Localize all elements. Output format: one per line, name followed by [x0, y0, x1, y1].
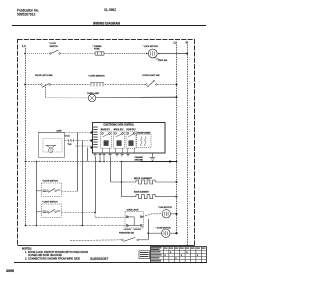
wire L1 bottom feed y225.5 [25, 225, 127, 227]
svg-text:LIMIT: LIMIT [57, 130, 63, 132]
node drops on mid rail [99, 161, 105, 163]
wire broil row right to L2 [155, 181, 176, 183]
node mid rail x170 [169, 160, 171, 162]
pin nub P4 [91, 140, 93, 142]
wire drop x104 to mid rail [103, 157, 105, 162]
wire feeder to door switch [36, 190, 41, 192]
switch S2 lock cam switch [154, 57, 168, 62]
node row2 at L2 [176, 84, 178, 86]
pin nub P3 [91, 132, 93, 134]
svg-text:2. CONNECTORS SHOWN FROM WIRE: 2. CONNECTORS SHOWN FROM WIRE SIDE [25, 257, 80, 260]
oven light assembly box [125, 209, 144, 228]
header rule [12, 25, 206, 27]
wire vertical drop B x82 [82, 141, 84, 226]
svg-text:5995267613: 5995267613 [17, 13, 36, 17]
relay K3 conv relay [126, 129, 136, 148]
wire lamp box to fan motor [142, 214, 162, 217]
svg-text:* OVEN SENSOR: * OVEN SENSOR [88, 76, 105, 78]
wire vertical x148 [148, 219, 150, 240]
U1 bottom pin stubs and labels [94, 153, 130, 156]
node fan motor at L2 [175, 213, 177, 215]
bus N [186, 41, 188, 246]
heating element bake [136, 195, 155, 199]
node mid rail at L1 [25, 161, 27, 163]
svg-text:DOOR LIGHT SW.: DOOR LIGHT SW. [143, 75, 161, 77]
node drop x95 on lamp feed [94, 212, 96, 214]
motor M3 conv motor [162, 229, 170, 237]
wire row2 sensor to door light switch [105, 84, 147, 86]
svg-text:N: N [186, 41, 188, 45]
motor M1 door lock motor [143, 46, 160, 58]
pin nub P5 [91, 147, 93, 149]
node lamp row at L2 [176, 96, 178, 98]
node x128 broil row crossing [121, 181, 123, 183]
wire fan motor to L2 [171, 213, 177, 215]
motor M2 fan motor [162, 210, 170, 218]
switch S1 lock switch [49, 43, 60, 54]
svg-text:TUS: TUS [68, 144, 73, 146]
relay terminal stubs inside U1 [102, 148, 134, 153]
svg-text:316063057: 316063057 [90, 257, 109, 261]
lamp DS1 oven lamp [87, 92, 100, 102]
svg-text:* CONV MOTOR: * CONV MOTOR [156, 228, 172, 230]
wire pressure switch row left [70, 239, 122, 242]
wire row1 fuse to motor [104, 53, 147, 55]
light switch box SW B [42, 202, 62, 218]
wire lamp row right to L2 [96, 96, 140, 98]
node row1 at L1 [24, 53, 26, 55]
svg-text:PRESSURE SW.: PRESSURE SW. [119, 232, 135, 234]
svg-text:OVEN LIGHT: OVEN LIGHT [127, 209, 140, 211]
svg-text:SWITCH: SWITCH [50, 46, 59, 48]
svg-text:T.O.D.: T.O.D. [65, 136, 71, 138]
wire thermostat to control P3 [39, 132, 93, 134]
svg-text:* LOCK: * LOCK [49, 43, 57, 45]
wire row2 L1 to latch switch [25, 84, 41, 86]
svg-text:CHASSIS: CHASSIS [135, 156, 144, 159]
node mid rail at L2 [176, 161, 178, 163]
node row1 at N [186, 53, 188, 55]
node feeder x36 on bottom feed [35, 225, 37, 227]
relay K1 bake relay [101, 128, 112, 148]
door switch box SW A [42, 181, 62, 197]
node broil at L2 [176, 181, 178, 183]
svg-text:* LOCK SW.: * LOCK SW. [157, 60, 168, 62]
svg-text:FUSE: FUSE [94, 49, 100, 51]
thermostat box TH1 [39, 130, 73, 157]
wire thermostat to control P4 [65, 139, 93, 142]
node drop B on bottom feed [81, 225, 83, 227]
wire light switch to lamp box [62, 212, 96, 214]
svg-text:BAKE ELEMENT: BAKE ELEMENT [134, 191, 150, 194]
wire lamp row left [46, 97, 89, 99]
wire door switch to drop A [62, 191, 78, 193]
wire conv motor to L2 [170, 232, 177, 234]
wire branch row2 down to lamp row [45, 85, 47, 98]
wire drop x110 to broil row [110, 157, 112, 183]
heating element broil [136, 180, 155, 184]
svg-text:DOOR LATCH SW.: DOOR LATCH SW. [35, 74, 53, 77]
header publication no. text [17, 8, 39, 16]
wire vertical drop C x87 [87, 148, 89, 162]
svg-text:3996: 3996 [6, 269, 14, 273]
wire drop x128 to bake row [121, 162, 123, 197]
svg-text:31-3962: 31-3962 [104, 8, 116, 12]
wire row2 switch to sensor plug [51, 84, 91, 86]
ground chassis under U1 [135, 153, 156, 161]
revision box [139, 251, 150, 259]
wire feeder to light switch [36, 211, 41, 213]
model option table [150, 247, 207, 263]
wire row2 switch to L2 [157, 84, 176, 86]
wire drop x100 to mid rail [99, 157, 101, 162]
svg-text:ELECTRONIC OVEN CONTROL: ELECTRONIC OVEN CONTROL [104, 123, 135, 127]
wire broil row left [111, 181, 137, 183]
wire vertical feeder x36 [36, 162, 38, 226]
wire pressure switch to x148 [138, 239, 148, 241]
svg-text:* THERM.: * THERM. [93, 46, 103, 48]
svg-text:BROIL ELEMENT: BROIL ELEMENT [134, 178, 153, 180]
switch S3 door latch switch [35, 74, 53, 87]
connector P1 oven sensor plug [88, 76, 105, 87]
wire bake row right to L2 [155, 196, 176, 198]
wire vertical drop A x77 [77, 133, 79, 192]
wire mid rail y161.5 [26, 161, 177, 163]
diagram frame [18, 40, 195, 246]
lamp box terminal labels [124, 228, 142, 231]
wire row1 switch to fuse [60, 53, 95, 55]
wire x148 to conv motor [148, 232, 162, 234]
fuse F1 thermal fuse [93, 46, 105, 55]
svg-text:* FAN MOTOR: * FAN MOTOR [158, 206, 172, 209]
wire row1 motor to N [160, 53, 187, 55]
node x148 conv motor tee [147, 232, 149, 234]
svg-text:L2: L2 [174, 41, 178, 45]
node mid rail x36 [36, 161, 38, 163]
switch S4 oven door light switch [143, 75, 161, 87]
wire drop x95 down to lamp feed [95, 157, 97, 213]
svg-text:L1: L1 [22, 44, 26, 48]
node conv motor at L2 [175, 232, 177, 234]
svg-text:NOTES:: NOTES: [22, 246, 32, 250]
svg-text:* LIGHT SWITCH: * LIGHT SWITCH [42, 202, 58, 204]
wire thermostat to control P5 [75, 145, 92, 147]
wire row1 L1 to lock switch [25, 53, 50, 55]
svg-text:* LOCK MOTOR: * LOCK MOTOR [143, 46, 159, 48]
bus L2 [174, 41, 178, 234]
switch S5 pressure switch [122, 237, 139, 241]
notes block [22, 246, 88, 260]
wire bake row left [122, 196, 137, 198]
node L1 bottom corner [25, 225, 27, 227]
footer rule [14, 262, 207, 264]
pin labels column U1 left [93, 127, 98, 148]
node row2 at L1 [24, 84, 26, 86]
node bake at L2 [176, 196, 178, 198]
transformer T1 [137, 132, 152, 148]
svg-text:WIRING DIAGRAM: WIRING DIAGRAM [93, 20, 120, 25]
bus L1 [22, 44, 26, 226]
svg-text:* DOOR SWITCH: * DOOR SWITCH [42, 181, 58, 183]
frame bottom edge reinforcement [18, 245, 195, 247]
relay K2 broil relay [114, 129, 125, 148]
electronic oven control U1 [93, 123, 166, 154]
